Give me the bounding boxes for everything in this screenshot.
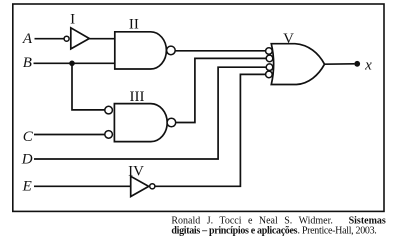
OR gate V input bubble 3 xyxy=(266,64,273,71)
OR gate V input bubble 4 xyxy=(266,71,273,78)
wire E to inverter IV input xyxy=(34,185,131,187)
wire OR V output xyxy=(325,63,355,65)
OR gate V input bubble 2 xyxy=(266,55,273,62)
wire A to inverter I input xyxy=(35,38,65,40)
junction dot on B xyxy=(69,61,75,67)
NAND II output bubble xyxy=(167,46,176,55)
NAND III top input bubble xyxy=(105,106,113,114)
OR gate V body xyxy=(271,44,324,85)
wire inverter IV output up to OR V input 4 xyxy=(155,74,266,186)
svg-text:III: III xyxy=(130,89,145,105)
wire C to NAND III bottom input xyxy=(34,134,105,136)
svg-text:I: I xyxy=(70,11,75,27)
svg-text:V: V xyxy=(283,31,294,47)
svg-text:II: II xyxy=(129,17,139,33)
svg-text:digitais – princípios e aplica: digitais – princípios e aplicações xyxy=(171,226,297,237)
svg-text:IV: IV xyxy=(128,164,144,180)
svg-text:Sistemas: Sistemas xyxy=(349,215,386,226)
NAND gate II body xyxy=(115,32,167,69)
wire inverter I output to NAND II top input xyxy=(89,38,115,40)
wire B branch down to NAND III top input xyxy=(72,63,105,110)
svg-text:E: E xyxy=(22,179,32,195)
svg-text:. Prentice-Hall, 2003.: . Prentice-Hall, 2003. xyxy=(298,226,377,237)
svg-text:Ronald J. Tocci e Neal S. Widm: Ronald J. Tocci e Neal S. Widmer. xyxy=(171,215,333,226)
wire NAND II output to OR V input 1 xyxy=(175,50,266,52)
svg-text:A: A xyxy=(22,31,33,47)
wire B to NAND II bottom input xyxy=(34,62,115,64)
inverter I input bubble xyxy=(64,36,69,41)
NAND III bottom input bubble xyxy=(105,131,113,139)
OR gate V input bubble 1 xyxy=(266,48,273,55)
output node dot xyxy=(354,61,360,67)
inverter IV triangle xyxy=(131,176,149,196)
svg-text:C: C xyxy=(23,129,34,145)
NAND gate III body xyxy=(114,104,167,142)
wire D to OR V input 3 xyxy=(34,67,266,159)
inverter I triangle xyxy=(71,28,90,49)
svg-text:x: x xyxy=(364,57,372,73)
svg-text:D: D xyxy=(21,151,33,167)
NAND III output bubble xyxy=(167,118,176,127)
wire NAND III output up to OR V input 2 xyxy=(176,58,267,122)
inverter IV output bubble xyxy=(150,184,155,189)
svg-text:B: B xyxy=(23,55,32,71)
